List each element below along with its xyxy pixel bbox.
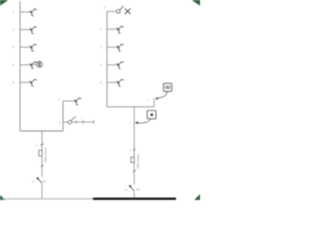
svg-text:VOB 2.5mm²: VOB 2.5mm² (44, 147, 48, 162)
meter P2 (147, 111, 156, 119)
breaker F6 (74, 98, 81, 105)
disconnector Q1 (68, 116, 76, 123)
wire (107, 81, 117, 83)
switch S1 (36, 177, 42, 183)
fuse F12 (131, 157, 134, 163)
breaker F9 (117, 44, 124, 51)
svg-text:16A: 16A (136, 188, 140, 191)
wire (63, 121, 68, 123)
wire (107, 10, 117, 12)
wire (62, 101, 64, 131)
wire (20, 11, 30, 13)
svg-text:VOB 2.5mm²: VOB 2.5mm² (136, 154, 140, 169)
breaker F10 (117, 62, 124, 69)
wire (107, 106, 154, 108)
breaker F3 (30, 44, 37, 51)
wire (20, 81, 30, 83)
feeder drop wire (41, 131, 43, 198)
corner marks (0, 0, 8, 6)
conductor tick (133, 170, 136, 172)
breaker F2 (30, 27, 37, 34)
switch S2 (129, 185, 135, 191)
main breaker Q2 (116, 6, 130, 14)
breaker F5 (30, 79, 37, 86)
lamp L1 (36, 61, 42, 67)
conductor tick (41, 144, 44, 146)
wire (33, 64, 37, 66)
wire (107, 28, 117, 30)
conductor tick (133, 149, 136, 151)
wire (107, 64, 117, 66)
feeder drop wire (133, 107, 135, 198)
breaker F4 (30, 62, 37, 69)
wire (20, 46, 30, 48)
wire (20, 130, 63, 132)
fuse F7 (39, 150, 42, 156)
bus bar (black) (93, 198, 176, 200)
wire (107, 46, 117, 48)
wire (20, 29, 30, 31)
meter lead arrow (155, 91, 167, 99)
svg-text:16A: 16A (42, 180, 46, 183)
breaker F8 (117, 26, 124, 33)
breaker F1 (30, 9, 37, 16)
breaker F11 (117, 79, 124, 86)
conductor tick (41, 165, 44, 167)
ground line left (3, 198, 96, 200)
bus B1 (19, 1, 21, 131)
wire stub (153, 98, 155, 106)
wire (63, 100, 74, 102)
kWh meter P1 (163, 83, 171, 91)
wire (71, 121, 94, 123)
bus B2 (106, 11, 108, 106)
wire (20, 64, 30, 66)
meter lead arrow (135, 119, 151, 124)
conductor ticks (76, 120, 94, 123)
